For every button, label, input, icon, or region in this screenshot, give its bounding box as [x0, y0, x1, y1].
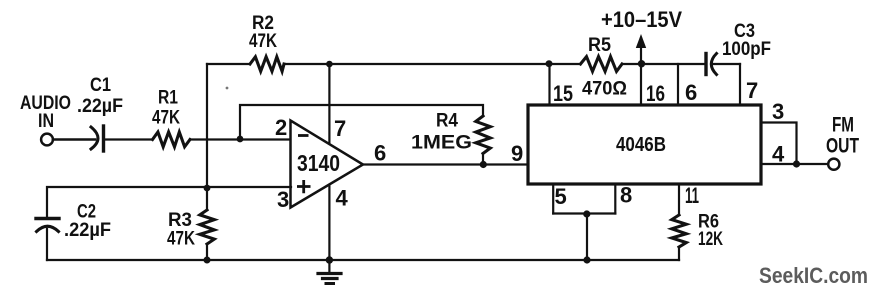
svg-text:6: 6: [374, 141, 386, 166]
svg-text:47K: 47K: [167, 229, 195, 250]
svg-text:IN: IN: [38, 111, 54, 132]
svg-text:SeekIC.com: SeekIC.com: [759, 263, 868, 288]
svg-text:4: 4: [336, 186, 349, 211]
svg-text:16: 16: [646, 81, 665, 106]
svg-text:8: 8: [620, 183, 632, 208]
svg-text:FM: FM: [832, 114, 854, 137]
svg-text:100pF: 100pF: [722, 39, 771, 60]
svg-text:R4: R4: [436, 111, 458, 132]
svg-text:11: 11: [685, 183, 699, 208]
svg-text:1MEG: 1MEG: [411, 133, 472, 154]
svg-text:R1: R1: [158, 88, 178, 109]
svg-text:4046B: 4046B: [616, 134, 666, 156]
svg-text:+10–15V: +10–15V: [601, 7, 682, 32]
svg-text:15: 15: [553, 81, 573, 106]
svg-text:9: 9: [511, 141, 523, 166]
svg-text:7: 7: [334, 116, 346, 141]
svg-text:.22µF: .22µF: [64, 220, 111, 241]
svg-text:3140: 3140: [297, 150, 340, 176]
svg-text:4: 4: [772, 142, 785, 167]
svg-text:3: 3: [772, 99, 784, 124]
svg-text:.22µF: .22µF: [77, 96, 123, 117]
svg-text:47K: 47K: [249, 31, 277, 52]
svg-text:OUT: OUT: [826, 135, 859, 158]
svg-text:3: 3: [277, 187, 289, 212]
svg-text:C1: C1: [90, 75, 111, 96]
svg-text:6: 6: [685, 80, 697, 105]
svg-text:12K: 12K: [698, 229, 723, 250]
svg-text:R5: R5: [588, 35, 611, 56]
svg-text:2: 2: [275, 115, 287, 140]
svg-text:470Ω: 470Ω: [582, 79, 627, 100]
svg-text:5: 5: [555, 184, 567, 209]
svg-text:7: 7: [746, 78, 758, 103]
svg-text:47K: 47K: [152, 108, 180, 129]
